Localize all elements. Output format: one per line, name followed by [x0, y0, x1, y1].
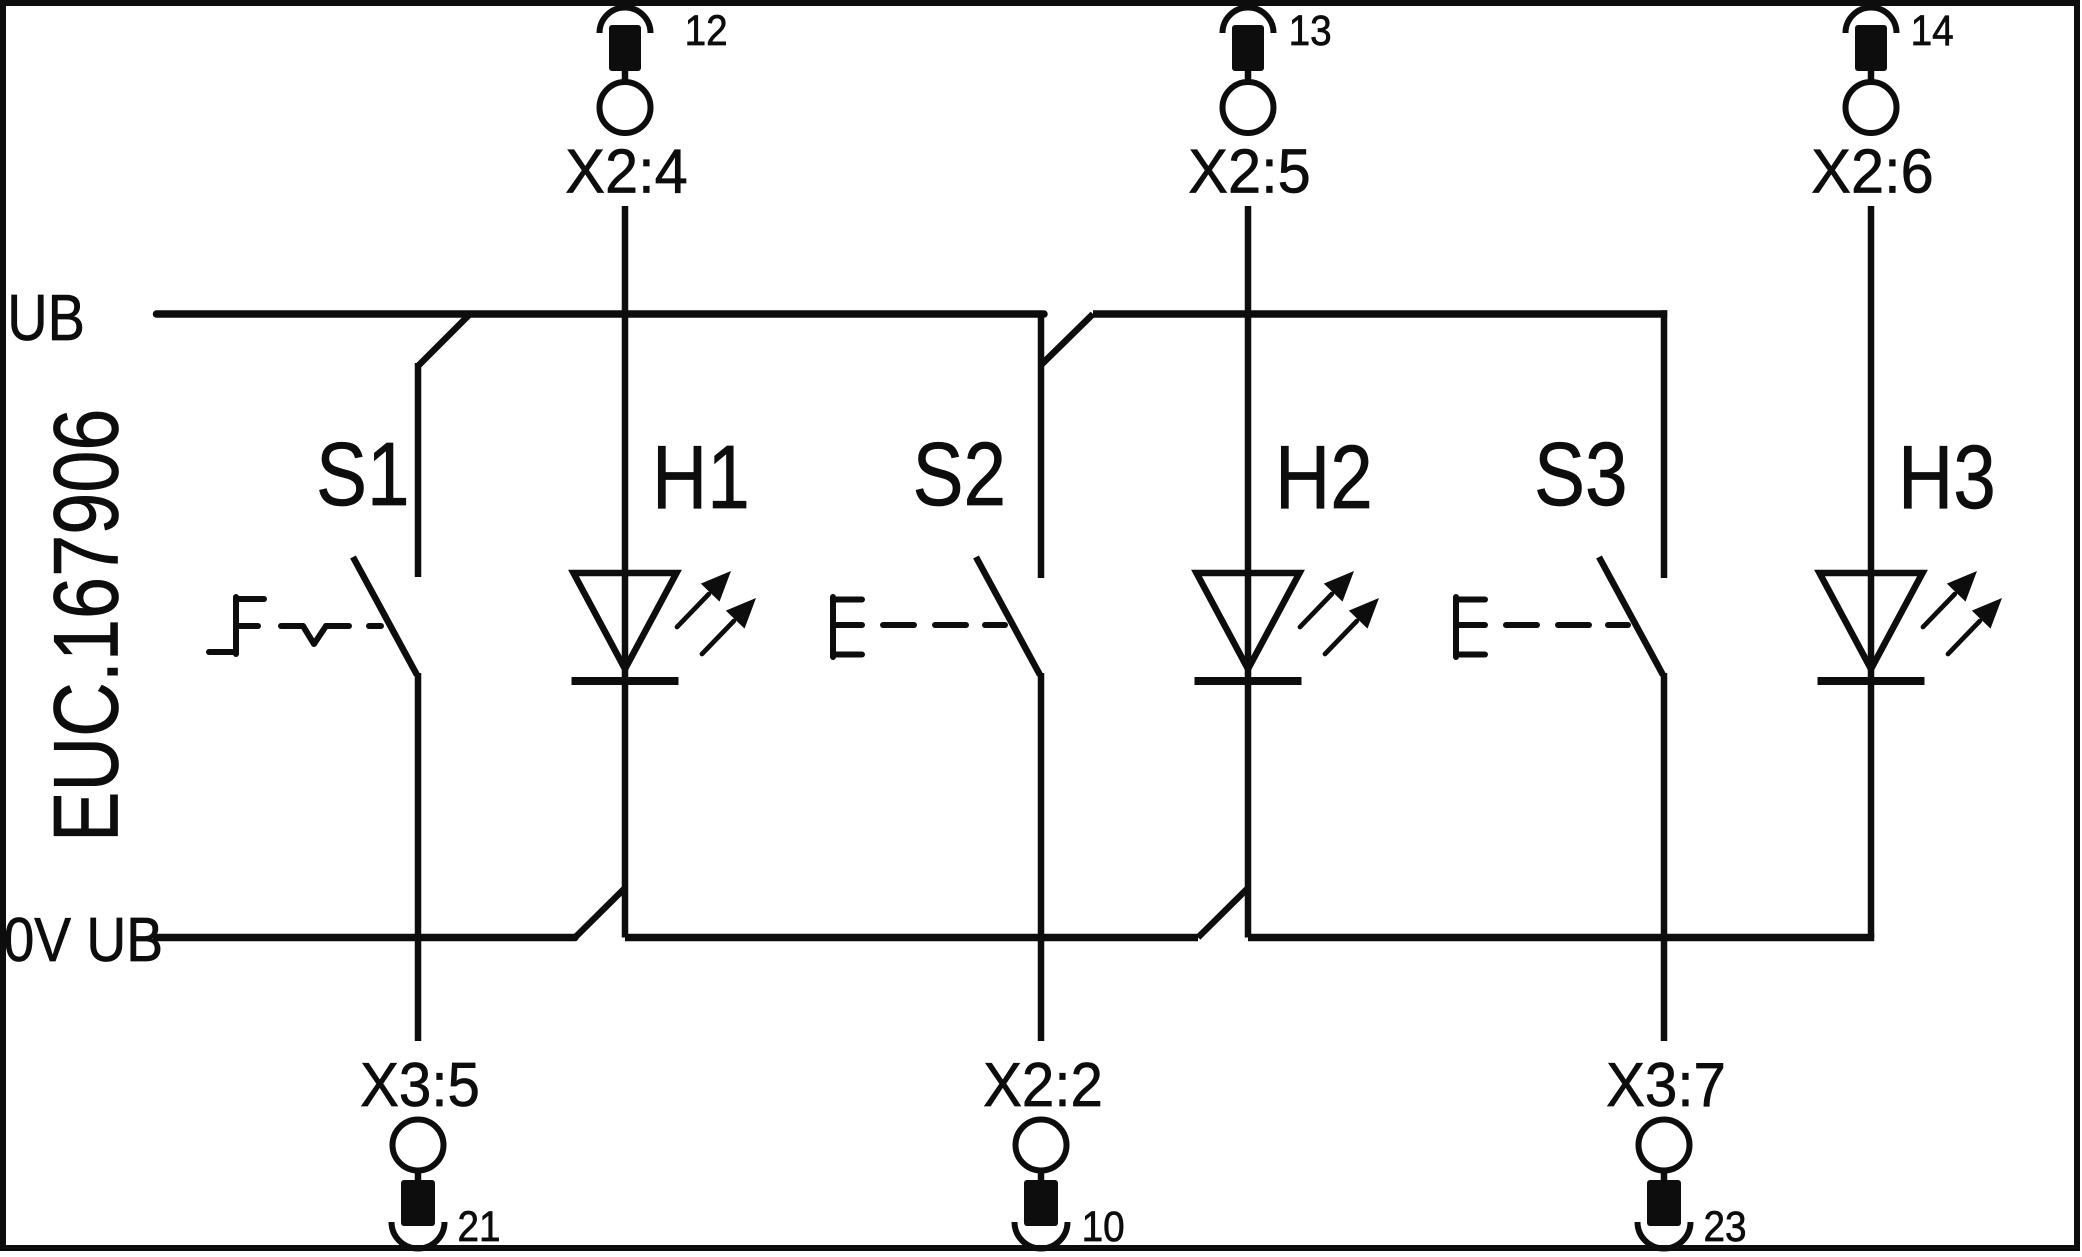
svg-text:H2: H2 — [1275, 426, 1373, 527]
svg-text:12: 12 — [685, 6, 728, 54]
svg-text:X2:2: X2:2 — [983, 1050, 1103, 1119]
svg-text:S3: S3 — [1534, 423, 1628, 524]
svg-text:X3:7: X3:7 — [1606, 1050, 1726, 1119]
svg-text:S2: S2 — [913, 423, 1007, 524]
svg-text:UB: UB — [7, 281, 85, 354]
svg-text:13: 13 — [1289, 6, 1332, 54]
svg-text:14: 14 — [1911, 6, 1954, 54]
svg-text:X2:6: X2:6 — [1811, 136, 1933, 205]
svg-text:S1: S1 — [316, 423, 410, 524]
svg-text:10: 10 — [1082, 1202, 1125, 1250]
svg-text:0V UB: 0V UB — [4, 906, 163, 975]
svg-text:X3:5: X3:5 — [360, 1050, 480, 1119]
svg-text:X2:5: X2:5 — [1188, 136, 1310, 205]
svg-text:23: 23 — [1704, 1202, 1747, 1250]
svg-text:H3: H3 — [1898, 426, 1996, 527]
svg-text:21: 21 — [458, 1202, 501, 1250]
svg-text:X2:4: X2:4 — [565, 136, 687, 205]
svg-text:EUC.167906: EUC.167906 — [35, 408, 138, 842]
svg-text:H1: H1 — [652, 426, 750, 527]
